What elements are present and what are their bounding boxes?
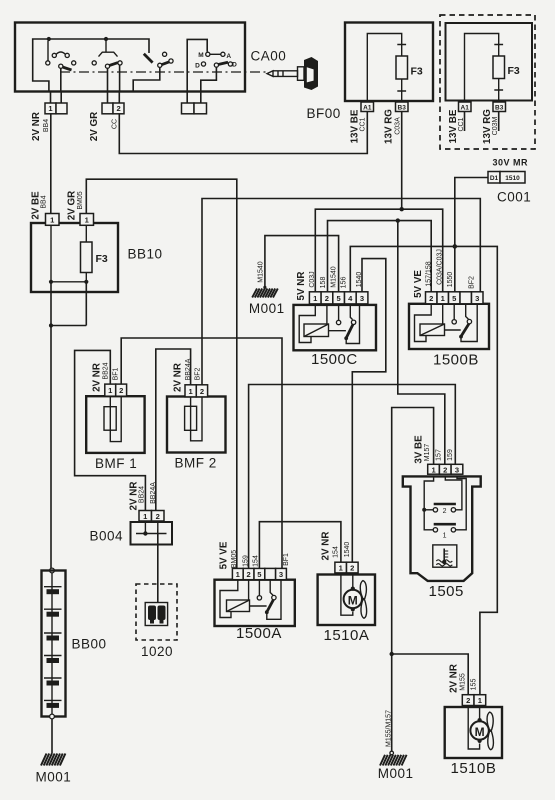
wire battery feed: BB10 down to BB00 (50, 326, 52, 569)
svg-text:5V VE: 5V VE (219, 541, 230, 569)
svg-text:M001: M001 (249, 301, 285, 316)
1500B internal coil (415, 304, 445, 342)
wire M155 branch to 1510B t2 (392, 654, 469, 695)
svg-text:1500B: 1500B (433, 352, 479, 369)
wire BF1: BMF1 t2 to 1500A t3 (121, 338, 282, 568)
svg-text:CC: CC (112, 119, 119, 129)
svg-text:2V GR: 2V GR (89, 112, 100, 141)
svg-text:BM05: BM05 (231, 550, 238, 568)
relay 1500C box (294, 305, 377, 368)
1510B motor M (468, 706, 489, 750)
dashed box internal wiring (465, 34, 499, 103)
node M155/M157 (390, 652, 394, 656)
svg-text:156: 156 (341, 277, 348, 289)
svg-text:M: M (475, 725, 485, 739)
CA00 connector 2 (102, 92, 124, 114)
svg-text:BF1: BF1 (283, 553, 290, 566)
dashed box fuse F3 (493, 45, 520, 91)
BF00 fuse F3 (396, 45, 423, 92)
svg-text:2: 2 (156, 512, 160, 521)
svg-text:M001: M001 (36, 770, 72, 785)
BMF1 terminals 1 2 (105, 384, 127, 396)
wire 2V NR BB24: BMF1 t1 to B004 t1 (75, 350, 146, 510)
wire 154: 1500A t5 to 1510A t1 (259, 522, 341, 569)
CA00 internal supply rail (33, 37, 149, 92)
svg-text:CC1: CC1 (360, 117, 367, 131)
1505 internal switch 2 (422, 476, 456, 529)
svg-text:C03A: C03A (395, 117, 402, 135)
svg-text:BB24A: BB24A (150, 482, 157, 504)
svg-text:C001: C001 (497, 190, 531, 205)
svg-text:B3: B3 (495, 105, 504, 112)
svg-text:1510A: 1510A (324, 627, 370, 644)
svg-text:BB10: BB10 (128, 247, 163, 262)
1510A fan blades (360, 581, 366, 619)
svg-text:M1540: M1540 (257, 261, 264, 283)
wire 2V GR CC: CA00 conn2 to BF00 terminal A1 (119, 112, 367, 154)
BMF2 terminals 1 2 (185, 385, 208, 397)
wire 159: 1500A t2 to 1505 t3 (249, 385, 456, 569)
svg-text:1020: 1020 (141, 644, 173, 659)
fuse box BB10 (31, 223, 163, 292)
svg-text:158: 158 (320, 277, 327, 289)
svg-text:1505: 1505 (429, 583, 464, 600)
svg-text:155: 155 (471, 679, 478, 691)
svg-text:BB00: BB00 (72, 637, 107, 652)
BMF1 internal fuse (104, 396, 121, 441)
wire 1550: 1500C t4 to 1510B t1 via right side (350, 244, 497, 695)
svg-text:A1: A1 (363, 105, 372, 112)
wire from C001 D1 to node 1550 (455, 178, 488, 247)
1500C internal coil (299, 304, 328, 343)
1500B internal contact (445, 304, 478, 342)
1510B terminals 2 1 (462, 695, 485, 706)
ground M001 (bottom middle) (378, 751, 414, 781)
svg-text:1540: 1540 (344, 542, 351, 558)
svg-text:2: 2 (200, 387, 204, 396)
svg-text:2: 2 (325, 294, 329, 303)
svg-text:M155: M155 (459, 673, 466, 691)
1510A terminals 1 2 (335, 562, 358, 573)
svg-text:2: 2 (246, 570, 250, 579)
svg-text:1550: 1550 (447, 272, 454, 288)
dashed box terminal A1 (459, 102, 472, 112)
wire 1540: 1500C t3 to 1510A t2 (352, 259, 386, 563)
thermal switch 1505 body (403, 476, 481, 600)
svg-text:2: 2 (466, 696, 470, 705)
anti-theft unit 1020 (dashed) (136, 584, 177, 659)
1505 thermometer symbol (433, 545, 457, 567)
svg-text:1500A: 1500A (236, 625, 282, 642)
svg-text:B3: B3 (398, 105, 407, 112)
svg-text:BB24: BB24 (102, 362, 109, 379)
1500C internal contact (329, 304, 360, 344)
optional fuse box (dashed) (440, 15, 535, 149)
svg-text:BB24: BB24 (139, 486, 146, 503)
svg-text:M: M (348, 593, 358, 607)
ignition switch CA00 box (15, 23, 286, 92)
svg-text:3: 3 (475, 294, 479, 303)
svg-text:BB4: BB4 (43, 119, 50, 132)
CA00 switch contact S2 (92, 41, 122, 92)
svg-text:157: 157 (436, 449, 443, 461)
svg-text:BB4: BB4 (40, 195, 47, 208)
CA00 switch contact S3 (133, 52, 173, 91)
svg-text:M: M (198, 52, 203, 59)
svg-text:5V VE: 5V VE (413, 270, 424, 298)
svg-text:CC1: CC1 (458, 117, 465, 131)
svg-text:30V MR: 30V MR (493, 158, 529, 168)
svg-text:BM05: BM05 (77, 191, 84, 209)
svg-text:2V NR: 2V NR (449, 664, 460, 693)
BB10 internal bus (49, 280, 89, 284)
CA00 rotation axis dash-dot line (60, 71, 267, 73)
relay 1500A box (215, 580, 295, 642)
svg-text:2: 2 (443, 508, 447, 515)
1500A terminal row 1 2 5 _ 3 (232, 568, 286, 579)
svg-text:157/158: 157/158 (426, 261, 433, 286)
svg-text:2: 2 (443, 465, 447, 474)
svg-text:D: D (232, 62, 237, 69)
svg-text:C03A/C03J: C03A/C03J (437, 249, 444, 285)
svg-text:M1540: M1540 (331, 266, 338, 288)
1505 terminal row 1 2 3 (428, 464, 463, 474)
1510A motor M (341, 573, 362, 615)
svg-text:5V NR: 5V NR (296, 272, 307, 301)
wire 13V RG C03A: BF00 B3 down to node (401, 112, 403, 210)
battery BB00 (42, 568, 107, 719)
svg-text:2V NR: 2V NR (173, 363, 184, 392)
svg-text:BF00: BF00 (307, 106, 341, 121)
svg-text:2V NR: 2V NR (320, 532, 331, 561)
relay 1500B box (409, 304, 489, 369)
svg-text:3V BE: 3V BE (414, 435, 425, 464)
connector B004 (90, 511, 173, 545)
svg-text:154: 154 (333, 546, 340, 558)
svg-text:2V GR: 2V GR (66, 191, 77, 220)
wire 2V NR BB4: CA00 conn1 to BB10 (50, 114, 52, 214)
svg-text:BMF 1: BMF 1 (95, 456, 137, 471)
BF00 terminal A1 (361, 102, 374, 112)
BB10 fuse F3 (81, 225, 108, 281)
svg-text:F3: F3 (96, 253, 108, 265)
svg-text:13V RG: 13V RG (384, 109, 395, 144)
connector C001 terminal D1 1510 (488, 172, 531, 205)
svg-text:M155/M157: M155/M157 (386, 710, 393, 747)
svg-text:2: 2 (350, 564, 354, 573)
ground M001 (battery) (36, 754, 72, 785)
BB10 lower loop wires (49, 282, 86, 328)
svg-text:1500C: 1500C (311, 351, 358, 368)
dashed box stub wires (465, 112, 499, 132)
BB00 cell plates (44, 573, 62, 714)
svg-text:A1: A1 (461, 105, 470, 112)
svg-text:3: 3 (279, 570, 283, 579)
BB10 internal left feed (50, 225, 52, 281)
wire M157: 1505 t1 to ground M001 (392, 408, 434, 754)
CA00 connector 1 (45, 92, 67, 114)
wire 2V NR BB24A: BMF2 t1 to B004 t2 (156, 349, 191, 511)
svg-text:2: 2 (116, 104, 120, 113)
svg-text:3: 3 (360, 294, 364, 303)
fusible link box BMF2 (167, 397, 226, 471)
svg-text:D1: D1 (490, 175, 499, 182)
svg-text:1510: 1510 (505, 175, 520, 182)
1500C terminal row 1 2 5 4 3 (309, 292, 368, 304)
wire M1540: 1500C t5 to ground (263, 236, 338, 292)
wire 2V GR BM05: BB10 to 1500A terminal 1 (86, 179, 237, 568)
BB10 terminal 1 (right, BM05) (80, 214, 94, 226)
svg-text:F3: F3 (411, 66, 423, 78)
1500B terminal 5 wire to node 1550 (454, 246, 456, 291)
1510B fan blades (487, 712, 493, 750)
svg-text:154: 154 (253, 555, 260, 567)
wire B004 to 1020 (157, 534, 159, 603)
svg-text:2V NR: 2V NR (91, 363, 102, 392)
BF00 internal wiring (367, 34, 401, 103)
ignition key symbol (267, 57, 318, 90)
svg-text:3: 3 (455, 465, 459, 474)
1020 internal double coil (145, 603, 167, 626)
BMF2 internal fuse (185, 397, 202, 441)
BB10 terminal 1 (left, BB4) (46, 214, 60, 226)
wire BF2: BMF2 t2 to 1500B t3 (202, 199, 480, 385)
1500A internal coil (220, 580, 250, 618)
svg-text:2V NR: 2V NR (31, 112, 42, 141)
CA00 switch contact S4 (M-D-A) (187, 39, 237, 91)
svg-text:M157: M157 (424, 444, 431, 462)
fan motor 1510B box (445, 707, 502, 777)
wire BB00 to ground (51, 719, 53, 754)
ground M001 (M1540) (249, 289, 285, 317)
B004 internal splice (136, 521, 167, 538)
svg-text:CA00: CA00 (251, 49, 287, 64)
svg-text:BF2: BF2 (469, 276, 476, 289)
svg-text:1510B: 1510B (451, 760, 497, 777)
wire 1550 junction dot (453, 244, 457, 248)
svg-text:C03M: C03M (492, 117, 499, 136)
wire 158/157: 1500C t2 to 1500B t2 with node to 1505 t2 (328, 218, 445, 464)
svg-text:D: D (195, 63, 200, 70)
wire C03J/C03A: 1500C t1 to 1500B t1 with node (315, 207, 442, 292)
CA00 connector 3 (182, 92, 207, 114)
1505 internal switch 1 (433, 476, 466, 539)
svg-text:159: 159 (447, 449, 454, 461)
svg-text:BF1: BF1 (113, 367, 120, 380)
svg-text:2: 2 (429, 294, 433, 303)
svg-text:B004: B004 (90, 529, 124, 544)
svg-text:BMF 2: BMF 2 (175, 456, 217, 471)
svg-text:M001: M001 (378, 766, 414, 781)
1500B terminal row 2 1 5 _ 3 (426, 292, 484, 304)
svg-text:F3: F3 (508, 65, 520, 77)
svg-text:A: A (226, 53, 231, 60)
dashed box terminal B3 (493, 102, 506, 112)
1500A internal contact (250, 580, 282, 620)
fuse box BF00 (307, 23, 434, 122)
fusible link box BMF1 (86, 396, 144, 471)
BF00 terminal B3 (396, 102, 409, 112)
svg-text:1: 1 (443, 533, 447, 540)
svg-text:2: 2 (119, 386, 123, 395)
fan motor 1510A box (318, 575, 375, 645)
svg-text:BF2: BF2 (195, 367, 202, 380)
CA00 switch contact S1 (46, 41, 76, 92)
